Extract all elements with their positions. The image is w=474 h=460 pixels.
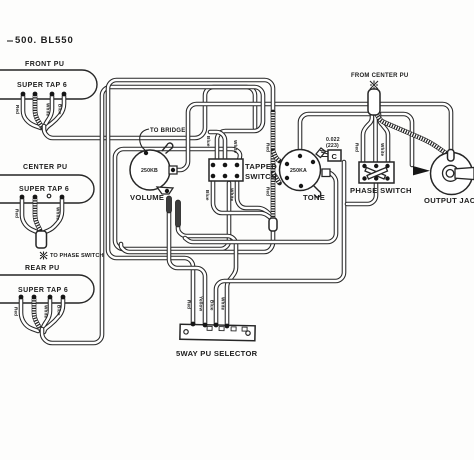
svg-text:SUPER TAP 6: SUPER TAP 6 — [19, 186, 69, 193]
wire tapped bottom-left rail — [213, 178, 273, 222]
wire tapped bottom-right rail — [237, 178, 272, 218]
shield braid capsule to jack — [377, 115, 447, 154]
wire selector red to shield braid — [108, 80, 273, 324]
reference mark to phase switch — [40, 252, 48, 260]
svg-text:FROM CENTER PU: FROM CENTER PU — [351, 73, 409, 79]
title L500. BL550 — [7, 35, 74, 46]
label Red (shield upper) — [266, 143, 271, 152]
selector terminal dots — [191, 322, 230, 329]
wire capsule white to phase switch — [379, 114, 388, 164]
potentiometer volume body — [130, 150, 170, 190]
tone pot lugs and label — [285, 148, 330, 197]
svg-text:Red: Red — [15, 209, 20, 218]
volume pot lugs and label — [141, 143, 177, 194]
label FRONT PU — [25, 61, 64, 68]
svg-text:Red: Red — [14, 307, 19, 316]
center PU shield wire — [35, 199, 40, 230]
shield junction sleeve — [269, 218, 277, 231]
label TAPPED SWITCH — [245, 162, 277, 181]
svg-text:White: White — [233, 140, 238, 154]
reference mark from center PU — [370, 81, 378, 91]
label Red (selector) — [187, 300, 192, 309]
svg-text:SUPER TAP 6: SUPER TAP 6 — [18, 287, 68, 294]
shield braid hook to tone upper — [273, 151, 280, 161]
svg-text:White: White — [56, 207, 61, 221]
svg-text:Red: Red — [187, 300, 192, 309]
pickup CENTER PU outline — [0, 175, 94, 203]
potentiometer tone body — [280, 150, 321, 191]
wire capsule mid to phase switch — [373, 113, 378, 164]
svg-text:500. BL550: 500. BL550 — [15, 35, 74, 46]
rear PU red wire — [21, 299, 38, 331]
volume lug sleeve 2 — [176, 200, 181, 227]
label PHASE SWITCH — [350, 186, 412, 195]
shield braid main column — [271, 112, 276, 222]
label SUPER TAP 6 (center) — [19, 186, 69, 193]
svg-text:SUPER TAP 6: SUPER TAP 6 — [17, 82, 67, 89]
label TONE — [303, 193, 325, 202]
wire tone lug ground — [185, 172, 336, 242]
pickup FRONT PU outline — [0, 70, 97, 99]
svg-text:Red: Red — [15, 105, 20, 114]
label OUTPUT JACK — [424, 196, 474, 205]
wire phase bottom-mid to selector blue — [347, 184, 376, 204]
label Blue (rear) — [57, 305, 62, 316]
svg-text:White: White — [380, 143, 385, 157]
svg-text:Red: Red — [266, 187, 271, 196]
svg-text:(223): (223) — [326, 143, 339, 149]
svg-text:C: C — [332, 152, 338, 161]
tapped switch box — [209, 159, 243, 181]
svg-text:250KB: 250KB — [141, 168, 158, 174]
wire tone top to jack left — [300, 114, 412, 165]
label White (selector) — [221, 297, 226, 311]
label FROM CENTER PU — [351, 73, 409, 79]
rear PU terminal dots — [19, 295, 66, 300]
svg-text:TONE: TONE — [303, 193, 325, 202]
label CENTER PU — [23, 164, 68, 171]
front PU terminal dots — [21, 92, 67, 97]
label White (tapped bottom) — [230, 188, 235, 202]
center PU terminal dots — [20, 194, 65, 199]
label TO BRIDGE with leader — [140, 128, 186, 150]
wire rear PU bundle to tapped blue — [42, 87, 263, 343]
svg-text:TAPPED: TAPPED — [245, 162, 277, 171]
wire selector blue to C cap — [216, 162, 344, 324]
label Yellow (selector) — [199, 296, 204, 311]
label SUPER TAP 6 (front) — [17, 82, 67, 89]
svg-text:REAR PU: REAR PU — [25, 265, 60, 272]
label Red (rear) — [14, 307, 19, 316]
label White (center) — [56, 207, 61, 221]
rear PU shield wire — [34, 299, 41, 330]
label SUPER TAP 6 (rear) — [18, 287, 68, 294]
svg-text:Blue: Blue — [205, 190, 210, 201]
capacitor C 0.022(223) — [321, 137, 341, 161]
label 5WAY PU SELECTOR — [176, 349, 258, 358]
label VOLUME — [130, 193, 164, 202]
label REAR PU — [25, 265, 60, 272]
center PU cable sleeve — [36, 231, 47, 248]
label White (rear) — [44, 305, 49, 319]
rear PU white wire — [42, 299, 50, 330]
svg-text:Red: Red — [266, 143, 271, 152]
front PU shield wire — [35, 96, 42, 127]
svg-text:FRONT PU: FRONT PU — [25, 61, 64, 68]
shield braid hook to tone lower — [273, 173, 280, 183]
cable sleeve from center PU — [368, 89, 380, 115]
svg-text:OUTPUT JACK: OUTPUT JACK — [424, 196, 474, 205]
wire volume sleeve2 to selector white — [178, 226, 236, 324]
svg-text:White: White — [44, 305, 49, 319]
label White (tapped top) — [233, 140, 238, 154]
label Blue (selector) — [210, 300, 215, 311]
svg-text:Blue: Blue — [57, 305, 62, 316]
label TO PHASE SWITCH — [50, 253, 104, 259]
label Red (shield lower) — [266, 187, 271, 196]
pickup REAR PU outline — [0, 275, 94, 303]
svg-text:PHASE SWITCH: PHASE SWITCH — [350, 186, 412, 195]
svg-text:Blue: Blue — [206, 136, 211, 147]
wire volume output to jack top — [177, 104, 451, 170]
wire shield junction down-left — [121, 224, 273, 252]
center PU red wire — [22, 199, 37, 232]
label Red (phase) — [355, 143, 360, 152]
svg-text:TO PHASE SWITCH: TO PHASE SWITCH — [50, 253, 104, 259]
rear PU blue wire — [44, 299, 63, 332]
front PU red wire — [23, 96, 41, 128]
phase switch box — [359, 162, 394, 183]
label White (phase) — [380, 143, 385, 157]
5-way selector box — [180, 324, 255, 341]
output jack — [413, 150, 474, 195]
svg-text:Blue: Blue — [210, 300, 215, 311]
label Red (front) — [15, 105, 20, 114]
svg-text:White: White — [230, 188, 235, 202]
svg-text:VOLUME: VOLUME — [130, 193, 164, 202]
center PU white wire — [45, 199, 62, 232]
volume lug sleeve 1 — [167, 196, 172, 213]
svg-text:TO BRIDGE: TO BRIDGE — [150, 128, 185, 134]
svg-text:SWITCH: SWITCH — [245, 172, 277, 181]
label Red (center) — [15, 209, 20, 218]
front PU white wire — [44, 96, 52, 128]
label Blue (front) — [58, 104, 63, 115]
front PU blue wire — [45, 96, 64, 130]
label White (front) — [46, 103, 51, 117]
svg-text:White: White — [221, 297, 226, 311]
svg-text:White: White — [46, 103, 51, 117]
wire front PU bundle up — [44, 87, 255, 138]
svg-text:5WAY PU SELECTOR: 5WAY PU SELECTOR — [176, 349, 258, 358]
wire tapped mid-top hook — [210, 132, 225, 163]
svg-text:CENTER PU: CENTER PU — [23, 164, 68, 171]
svg-text:Yellow: Yellow — [199, 296, 204, 311]
svg-text:250KA: 250KA — [290, 168, 307, 174]
label Blue (tapped top) — [206, 136, 211, 147]
label Blue (tapped bottom) — [205, 190, 210, 201]
svg-text:Blue: Blue — [58, 104, 63, 115]
svg-text:Red: Red — [355, 143, 360, 152]
wire tapped white loop — [115, 149, 240, 249]
wire volume sleeve1 to selector yellow — [169, 210, 205, 324]
wire capsule red to phase switch — [363, 114, 372, 164]
